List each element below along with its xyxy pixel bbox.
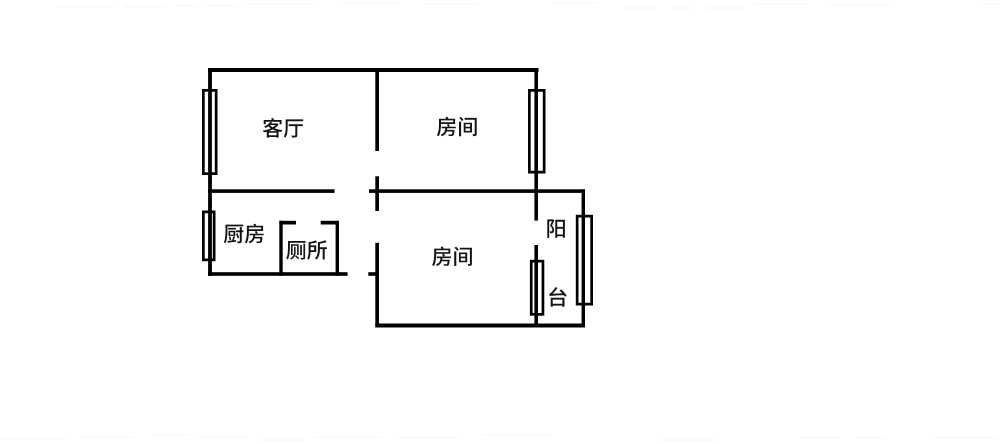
wall: middle vertical, lower segment (bedroom-bottom left wall) [375, 243, 379, 327]
wall: middle vertical, upper segment (living/bedroom partition) [375, 68, 379, 151]
wall: right vertical, upper segment (bedroom top right wall) [534, 68, 538, 221]
wall: toilet box top edge, left part [279, 221, 296, 225]
wall: top exterior (living room + bedroom top) [208, 68, 539, 72]
wall: balcony right exterior [582, 189, 585, 327]
wall: right vertical, lower segment (bedroom/balcony partition) [534, 245, 538, 327]
window: living room west wall [203, 90, 216, 173]
room label 厨房 (kitchen) [224, 224, 264, 244]
wall: toilet box right edge [336, 221, 339, 276]
room label 房间 (bedroom, bottom) [432, 247, 472, 267]
wall: middle vertical, middle segment [375, 176, 379, 211]
window: bedroom-top east wall [529, 90, 544, 172]
wall: kitchen/toilet bottom, left segment [208, 272, 348, 276]
faint compression-noise dash band, bottom edge [0, 434, 998, 441]
room label 台 (balcony, lower char) [549, 287, 567, 307]
wall: mid horizontal, left segment (below living room) [208, 189, 335, 193]
wall: toilet box left edge [279, 221, 282, 276]
wall: mid horizontal, right segment (top of bedroom-bottom and balcony) [369, 189, 585, 193]
wall: bottom exterior (bedroom-bottom + balcony) [375, 324, 585, 328]
window: bedroom-bottom/balcony wall [531, 261, 543, 314]
wall: toilet box top edge, right part [321, 221, 339, 225]
room label 阳 (balcony, upper char) [547, 219, 565, 238]
faint compression-noise dash band, top edge [56, 2, 1000, 9]
room label 客厅 (living room) [263, 118, 303, 138]
window: kitchen west wall [203, 212, 214, 260]
room label 厕所 (toilet) [286, 240, 327, 259]
wall: left exterior [208, 68, 212, 276]
window: balcony east exterior wall [577, 216, 592, 304]
wall: kitchen/toilet bottom, right stub [368, 272, 379, 276]
room label 房间 (bedroom, top) [437, 117, 477, 137]
